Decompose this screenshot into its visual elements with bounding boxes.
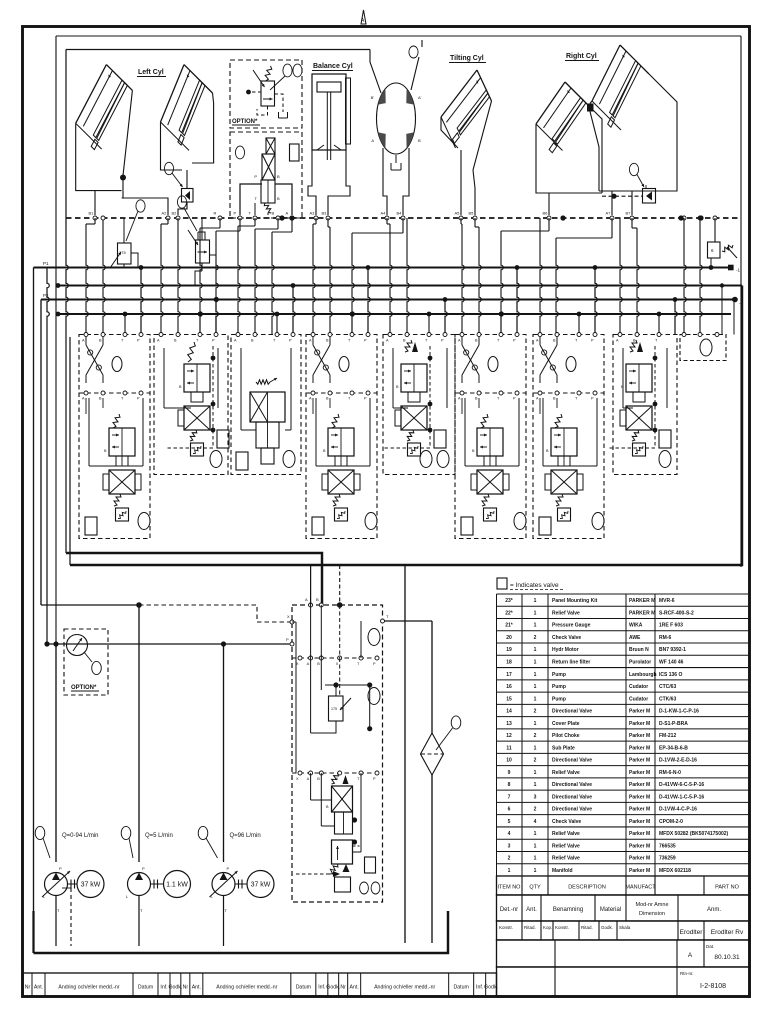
balloon 21 low [92,661,102,674]
svg-text:Sub Plate: Sub Plate [552,745,575,751]
svg-text:Benamning: Benamning [553,907,583,913]
port R interface [218,216,222,220]
svg-text:1: 1 [534,843,537,849]
svg-text:Return line filter: Return line filter [552,660,590,666]
wire right cluster 3 [721,286,723,335]
balloon [566,357,576,372]
terminal P1 [728,265,734,271]
pilot check valves [462,345,479,375]
svg-text:15: 15 [506,696,512,702]
balloon 2 [177,196,186,208]
svg-text:Godk.: Godk. [326,985,340,991]
svg-text:17: 17 [506,672,512,678]
wire P riser [595,268,597,335]
svg-text:Pilot Choke: Pilot Choke [552,733,580,739]
svg-text:MANUFACT: MANUFACT [625,884,656,890]
wire top supply [66,49,370,51]
wire right cluster 1 [684,218,686,335]
tank symbol option [279,112,288,118]
wire R2 legs [612,191,632,215]
wire T riser [276,314,278,335]
svg-text:21*: 21* [505,623,513,629]
svg-text:P1: P1 [43,261,49,266]
svg-text:A: A [307,662,310,666]
port row block low [292,772,383,774]
directional valve stack pilot [412,342,418,352]
wire P riser [141,268,143,335]
svg-text:12: 12 [506,733,512,739]
svg-text:DESCRIPTION: DESCRIPTION [568,884,606,890]
svg-text:Cudator: Cudator [629,696,648,702]
svg-text:-2: -2 [739,301,743,306]
svg-text:2: 2 [534,733,537,739]
svg-text:MFDX 602118: MFDX 602118 [659,868,691,874]
svg-text:1: 1 [534,696,537,702]
svg-text:FM-212: FM-212 [659,733,676,739]
svg-text:2: 2 [534,709,537,715]
svg-text:D-41VW-6-C-5-P-16: D-41VW-6-C-5-P-16 [659,782,704,788]
wire heavy return 1 [66,553,322,605]
svg-text:RM-6: RM-6 [659,635,671,641]
wire T riser [351,314,353,335]
svg-text:B: B [316,597,319,602]
svg-text:Nr: Nr [183,985,189,991]
title block row det-nr [497,895,751,921]
balloon 3 [136,200,145,212]
balloon 12 left [164,162,173,174]
wire drop [167,218,169,224]
svg-text:3: 3 [508,843,511,849]
svg-text:P: P [59,866,62,871]
svg-text:Bruun N: Bruun N [629,647,649,653]
svg-text:A4: A4 [381,211,387,216]
svg-text:Purolator: Purolator [629,660,651,666]
svg-text:A: A [305,597,308,602]
port plate unload [290,144,300,161]
wire rotary legs [383,148,387,215]
wire drop plain [103,218,105,335]
svg-text:QTY: QTY [529,884,541,890]
svg-text:PARKER M: PARKER M [629,598,655,604]
wire block pilot drop [339,565,341,605]
port B1 interface [93,216,97,220]
directional valve stack [481,414,488,428]
wire block X long [295,622,297,773]
rotary actuator tilting [377,83,416,154]
wire drop long jog B6 [548,218,550,231]
svg-text:P: P [286,637,289,642]
wire pump1 drain dashed [70,888,72,946]
svg-text:Relief Valve: Relief Valve [552,611,580,617]
svg-text:1: 1 [534,745,537,751]
svg-text:1: 1 [534,611,537,617]
svg-text:Konstr.: Konstr. [555,925,569,930]
unload valve box [230,132,302,218]
node pilot X tee [136,602,142,608]
wire drop [219,218,221,228]
port B3 interface [326,216,330,220]
balloon low [365,513,377,530]
svg-text:1: 1 [534,623,537,629]
relief valve 175 [118,243,132,264]
port B4 interface [401,216,405,220]
svg-text:P: P [234,211,237,216]
valve box V3 [231,335,301,475]
wire right cluster 4 [733,300,735,335]
svg-text:Pump: Pump [552,672,566,678]
plug rect [461,517,473,535]
balloon 21 [293,64,302,77]
balloon low [210,451,222,468]
svg-text:P: P [227,866,230,871]
svg-text:WIKA: WIKA [629,623,643,629]
wire pump1 riser [55,644,57,862]
svg-text:D-1VW-4-C-P-16: D-1VW-4-C-P-16 [659,807,697,813]
svg-text:1: 1 [534,672,537,678]
svg-text:Kop.: Kop. [543,925,552,930]
svg-text:Cudator: Cudator [629,684,648,690]
wire drop [386,218,388,224]
svg-text:2: 2 [534,758,537,764]
wire block stack legs [310,773,312,800]
wire drop [178,218,180,335]
directional valve stack pilot [188,342,196,362]
svg-text:A: A [286,211,289,216]
wire box loop [315,398,317,466]
wire gauge P line [47,643,290,645]
svg-text:736259: 736259 [659,856,676,862]
svg-text:X: X [287,614,290,619]
valve box 9 plate [680,335,726,361]
balloon pump [35,826,45,839]
svg-text:-1: -1 [736,268,740,273]
wire box loop [88,398,90,466]
svg-text:D-41VW-1-C-5-P-16: D-41VW-1-C-5-P-16 [659,794,704,800]
check valve left-cyl lock [182,189,194,203]
svg-text:Andring och/eller medd.-nr: Andring och/eller medd.-nr [216,985,277,991]
svg-text:D-S1-P-BRA: D-S1-P-BRA [659,721,688,727]
wire pump2 riser [138,605,140,862]
cylinder L2 left-cyl [161,65,185,122]
svg-text:Q=5 L/min: Q=5 L/min [145,833,173,839]
svg-text:CPOM-2-0: CPOM-2-0 [659,819,683,825]
port A3 interface [314,216,318,220]
wire A2 riser [122,191,168,215]
plug rect [539,517,551,535]
wire drop [239,218,241,231]
svg-text:MFDX 50282 (BK5074175002): MFDX 50282 (BK5074175002) [659,831,729,837]
pump [45,873,68,896]
balloon pump [121,826,131,839]
svg-text:Ant.: Ant. [350,985,359,991]
svg-text:14: 14 [506,709,512,715]
svg-text:EP-34-B-6-B: EP-34-B-6-B [659,745,688,751]
svg-text:A: A [688,952,693,959]
svg-text:Material: Material [600,907,621,913]
svg-text:Erodlter Rv: Erodlter Rv [711,929,744,936]
solenoid relief valve 2 [196,240,210,263]
svg-text:Pump: Pump [552,684,566,690]
wire L2 to B2 [178,202,187,215]
plug rect [312,517,324,535]
node block pilot top [337,602,343,608]
wire L1 to B1 [95,180,123,215]
svg-text:1: 1 [534,598,537,604]
directional valve stack [113,414,120,428]
sub port row [533,392,604,394]
svg-text:Parker M: Parker M [629,831,650,837]
svg-text:1: 1 [534,684,537,690]
wire T riser [124,314,126,335]
svg-text:B4: B4 [397,211,403,216]
balloon [112,357,122,372]
cylinder R2 right-cyl [592,45,620,101]
balloon 13 [235,146,244,159]
svg-text:Directional Valve: Directional Valve [552,709,592,715]
port T interface [253,216,257,220]
svg-text:Parker M: Parker M [629,856,650,862]
port A7 interface [610,216,614,220]
svg-text:I-2-8108: I-2-8108 [700,983,726,990]
svg-text:Relief Valve: Relief Valve [552,843,580,849]
svg-text:Erodlter: Erodlter [680,929,704,936]
port B5 interface [473,216,477,220]
svg-text:D-1VW-2-E-D-16: D-1VW-2-E-D-16 [659,758,697,764]
pressure gauge 21 [67,635,88,656]
wire unload legs [240,184,262,215]
wire T riser [578,314,580,335]
node interface B [279,215,284,220]
svg-text:Datum: Datum [138,985,153,991]
svg-text:CTK/63: CTK/63 [659,696,676,702]
tank symbol rotary [391,155,401,170]
svg-text:Parker M: Parker M [629,807,650,813]
svg-text:Inf.: Inf. [160,985,167,991]
svg-text:7: 7 [508,794,511,800]
svg-text:Check Valve: Check Valve [552,635,581,641]
wire drop [631,218,633,228]
wire block T out [382,620,432,622]
wire heavy return 2 [70,286,742,566]
wire T riser [500,314,502,335]
border frame inner [56,35,741,37]
svg-text:1: 1 [534,868,537,874]
balloon low V3 [283,451,295,468]
port B2 interface [176,216,180,220]
pilot check valves [313,345,330,375]
svg-text:A: A [371,138,374,143]
port A2 interface [166,216,170,220]
svg-text:B': B' [371,95,375,100]
svg-text:1RE F 603: 1RE F 603 [659,623,683,629]
svg-text:Parker M: Parker M [629,709,650,715]
svg-text:P: P [142,866,145,871]
svg-text:9: 9 [508,770,511,776]
wire balance legs [308,150,316,215]
bus P2 [41,299,735,301]
svg-text:18: 18 [506,660,512,666]
wire block pilot dashed bottom [296,873,333,875]
port block T right [381,619,385,623]
svg-text:Inf.: Inf. [318,985,325,991]
wire P riser [216,300,218,335]
svg-text:Konstr.: Konstr. [499,925,513,930]
port A4 interface [385,216,389,220]
node interface A [289,215,294,220]
directional valve stack pilot [637,342,643,352]
svg-text:Directional Valve: Directional Valve [552,758,592,764]
svg-text:Ant.: Ant. [192,985,201,991]
balloon 18 [451,716,461,729]
pilot check valves [86,345,103,375]
valve V3 [250,392,285,422]
valve box V2 [154,335,228,475]
svg-text:1: 1 [534,721,537,727]
port A interface [290,216,294,220]
cylinder R1 right-cyl [536,82,565,124]
title block header row [497,876,751,895]
svg-text:MVR-6: MVR-6 [659,598,675,604]
svg-text:Rtn-nr.: Rtn-nr. [680,971,694,976]
revision strip [23,973,497,997]
port B7 interface [630,216,634,220]
wire pump suction [138,896,140,947]
svg-text:37 kW: 37 kW [81,882,101,889]
balloon low extra V5 [420,451,432,468]
cylinder L1 left-cyl [76,65,107,124]
svg-text:1.1 kW: 1.1 kW [166,882,188,889]
svg-text:11: 11 [506,745,512,751]
wire tilting legs [460,150,462,215]
check valve right-cyl lock [643,189,656,204]
sheet mark A top [361,10,366,24]
wire tank trunk left [69,337,71,565]
port row block mid [292,657,383,659]
svg-text:A': A' [418,95,422,100]
wire box loop [163,348,165,408]
svg-text:Parker M: Parker M [629,843,650,849]
wire drop [474,218,476,227]
svg-text:WF 140 46: WF 140 46 [659,660,684,666]
svg-text:Tilting Cyl: Tilting Cyl [450,55,484,62]
choke V3 [261,448,274,464]
wire drop [291,218,293,232]
svg-text:B: B [317,662,320,666]
wire right cluster 2 [700,218,702,335]
electric motor [77,871,104,898]
svg-text:175: 175 [331,707,337,711]
svg-text:BN7 9392-1: BN7 9392-1 [659,647,686,653]
balloon low [592,513,604,530]
sub port row [455,392,526,394]
wire box loop [464,398,466,466]
relief valve 175 block [329,696,344,721]
node right-cyl clevis [587,104,594,112]
cylinder balance [312,74,346,150]
wire filter drop [431,621,433,734]
svg-text:Parker M: Parker M [629,794,650,800]
port block P [290,642,294,646]
electric motor [164,871,191,898]
wire pilot X dashed [139,605,290,622]
svg-text:2: 2 [508,856,511,862]
wire T riser [199,314,201,335]
port A5 interface [459,216,463,220]
terminal P2 [732,297,738,303]
svg-text:PARKER M: PARKER M [629,611,655,617]
wire drop plain B7x [540,218,542,335]
svg-text:Dimension: Dimension [639,911,665,917]
wire T riser [428,314,430,335]
bus LS2 [58,285,742,287]
balloon 4 block [368,629,380,646]
wire R1 to B6 [548,193,550,215]
relief valve option R22 [261,81,275,106]
balloon [339,357,349,372]
pump [212,873,235,896]
svg-text:A2: A2 [162,211,168,216]
valve box V6 [455,335,526,539]
plug rect V3 [236,452,248,470]
svg-text:Balance Cyl: Balance Cyl [313,63,353,70]
svg-text:37 kW: 37 kW [251,882,271,889]
node interface right2 [678,215,683,220]
sub port row [79,392,150,394]
svg-text:Directional Valve: Directional Valve [552,782,592,788]
svg-text:1: 1 [534,660,537,666]
svg-text:Ritad.: Ritad. [524,925,536,930]
balloon [488,357,498,372]
svg-text:Parker M: Parker M [629,770,650,776]
bus P1 [34,267,732,269]
svg-text:PART NO: PART NO [715,884,740,890]
plug rect [434,430,446,448]
svg-text:Ritad.: Ritad. [581,925,593,930]
wire drop [254,218,256,226]
svg-text:Pressure Gauge: Pressure Gauge [552,623,591,629]
svg-text:5: 5 [508,819,511,825]
svg-text:1: 1 [508,868,511,874]
svg-text:A7: A7 [606,211,612,216]
svg-text:16: 16 [506,684,512,690]
port P interface [238,216,242,220]
svg-text:2: 2 [534,807,537,813]
svg-text:ITEM NO: ITEM NO [498,884,522,890]
electric motor [247,871,274,898]
svg-text:Left Cyl: Left Cyl [138,69,164,76]
svg-text:B6: B6 [543,211,549,216]
wire pilot dashed right-cyl [602,195,643,197]
svg-text:Inf.: Inf. [476,985,483,991]
svg-text:13: 13 [506,721,512,727]
balloon block low2 [371,882,380,894]
svg-text:8: 8 [508,782,511,788]
bus T3 [58,313,731,315]
wire P riser [293,286,295,335]
svg-text:4: 4 [534,819,537,825]
parts list table grid [497,593,751,595]
svg-text:Ant.: Ant. [526,907,537,913]
pump [128,873,151,896]
svg-text:19: 19 [506,647,512,653]
svg-text:ICS 136 O: ICS 136 O [659,672,682,678]
svg-text:1: 1 [534,647,537,653]
svg-text:80.10.31: 80.10.31 [714,954,740,961]
wire P riser [368,268,370,335]
svg-text:Parker M: Parker M [629,782,650,788]
node pilot tee right [611,194,616,199]
relief valve 6 [708,242,721,258]
